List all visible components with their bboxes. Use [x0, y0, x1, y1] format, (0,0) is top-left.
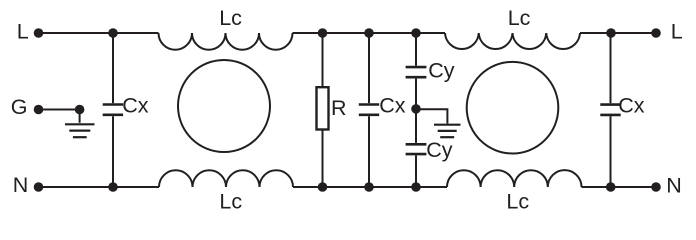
ground symbol at G terminal — [79, 110, 81, 123]
svg-text:Lc: Lc — [219, 190, 242, 214]
svg-text:Lc: Lc — [508, 6, 531, 30]
wire capacitor Cx3 branch vertical bottom — [610, 116, 612, 187]
wire Cy midpoint to ground — [416, 109, 447, 123]
svg-text:Cy: Cy — [428, 58, 455, 82]
wire capacitor Cy branch vertical middle — [415, 79, 417, 143]
junction dot top Cx3 — [606, 28, 616, 38]
inductor Lc bottom-right — [447, 170, 582, 187]
svg-text:Cx: Cx — [122, 94, 149, 118]
terminal dot N right — [651, 182, 661, 192]
ground symbol right of Cy midpoint — [434, 125, 461, 138]
junction dot top Cx1 — [108, 28, 118, 38]
resistor R body — [317, 87, 329, 129]
choke core circle left — [178, 60, 270, 152]
junction dot bottom Cy — [411, 182, 421, 192]
wire top-right coil to terminal — [580, 32, 656, 34]
junction dot bottom Cx3 — [606, 182, 616, 192]
wire top-left L to coil — [39, 32, 159, 34]
capacitor Cy2 plates — [406, 144, 427, 154]
junction dot top Cy — [411, 28, 421, 38]
terminal dot N left — [34, 182, 44, 192]
wire capacitor Cx1 branch vertical top — [112, 33, 114, 103]
wire capacitor Cx2 branch vertical bottom — [368, 116, 370, 187]
svg-text:N: N — [13, 173, 29, 197]
svg-text:L: L — [17, 20, 29, 44]
terminal dot G left — [34, 105, 44, 115]
junction dot top Cx2 — [364, 28, 374, 38]
wire resistor R branch vertical bottom — [322, 130, 324, 187]
terminal dot L right — [651, 28, 661, 38]
inductor Lc top-left — [159, 33, 293, 50]
capacitor Cx3 plates — [600, 105, 620, 115]
wire bottom-left N to coil — [39, 186, 160, 188]
wire capacitor Cy branch vertical bottom — [415, 156, 417, 188]
svg-text:Cx: Cx — [618, 94, 645, 118]
junction dot top R — [318, 28, 328, 38]
wire capacitor Cy branch vertical top — [415, 33, 417, 66]
wire resistor R branch vertical top — [322, 33, 324, 87]
inductor Lc top-right — [445, 33, 580, 49]
choke core circle right — [467, 62, 559, 154]
terminal dot L left — [34, 28, 44, 38]
svg-text:Cx: Cx — [379, 94, 406, 118]
junction dot bottom R — [318, 182, 328, 192]
svg-text:N: N — [666, 173, 682, 197]
capacitor Cy1 plates — [406, 67, 427, 77]
svg-text:Lc: Lc — [219, 6, 242, 30]
wire capacitor Cx2 branch vertical top — [368, 33, 370, 103]
wire G terminal to ground — [39, 109, 80, 111]
junction dot bottom Cx1 — [108, 182, 118, 192]
wire top middle between coils — [293, 32, 446, 34]
capacitor Cx1 plates — [103, 105, 123, 115]
wire capacitor Cx1 branch vertical bottom — [112, 116, 114, 187]
svg-text:Cy: Cy — [426, 138, 453, 162]
junction dot Cy midpoint — [411, 104, 421, 114]
wire bottom middle between coils — [293, 186, 447, 188]
svg-text:R: R — [331, 96, 347, 120]
svg-text:L: L — [671, 20, 683, 44]
wire bottom-right coil to terminal — [582, 186, 657, 188]
svg-text:Lc: Lc — [506, 190, 529, 214]
svg-text:G: G — [11, 95, 28, 119]
junction dot ground G — [75, 105, 85, 115]
inductor Lc bottom-left — [159, 170, 293, 187]
junction dot bottom Cx2 — [364, 182, 374, 192]
wire capacitor Cx3 branch vertical top — [610, 33, 612, 103]
capacitor Cx2 plates — [359, 105, 379, 115]
